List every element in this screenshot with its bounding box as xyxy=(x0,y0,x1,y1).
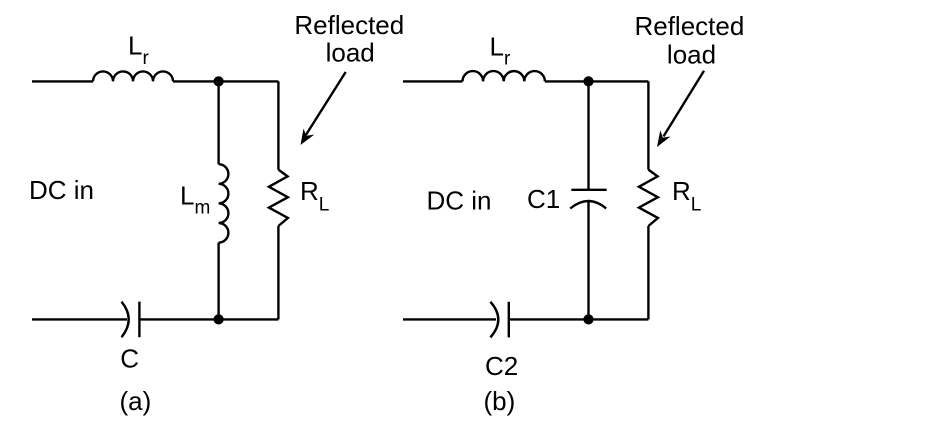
svg-text:RL: RL xyxy=(672,176,701,216)
svg-text:Lr: Lr xyxy=(490,32,511,70)
svg-text:C: C xyxy=(120,344,139,374)
capacitor C (a) curved plate xyxy=(122,302,129,338)
svg-text:load: load xyxy=(326,37,375,67)
svg-text:Lm: Lm xyxy=(180,181,210,219)
node junction dot (a) bottom xyxy=(214,314,224,324)
resistor RL (a) xyxy=(269,170,288,226)
annotation arrow (b) xyxy=(664,71,705,137)
wire (b) middle branch upper to C1 xyxy=(587,81,589,189)
node junction dot (a) top xyxy=(214,76,224,86)
arrowhead (a) xyxy=(301,129,315,145)
capacitor C2 (b) curved plate xyxy=(490,302,498,338)
capacitor C1 (b) curved plate xyxy=(570,201,606,209)
wire (b) top from Lr to corner xyxy=(545,80,649,82)
node junction dot (b) top xyxy=(583,76,593,86)
annotation arrow (a) xyxy=(306,72,346,135)
capacitor C (a) straight plate xyxy=(138,302,140,338)
wire (a) top-left horizontal xyxy=(32,80,93,82)
wire (a) top from Lr to corner xyxy=(173,80,278,82)
wire (a) right branch upper xyxy=(277,81,279,169)
svg-text:load: load xyxy=(667,40,716,70)
inductor Lr (a) xyxy=(93,71,173,81)
capacitor C2 (b) straight plate xyxy=(508,302,510,338)
svg-text:DC in: DC in xyxy=(29,175,94,205)
wire (a) bottom-left horizontal xyxy=(32,318,127,320)
svg-text:C1: C1 xyxy=(527,184,560,214)
wire (b) bottom-left horizontal xyxy=(403,318,496,320)
wire (a) middle branch lower xyxy=(217,243,219,320)
wire (a) bottom from C to corner xyxy=(139,318,278,320)
svg-text:Reflected: Reflected xyxy=(294,10,404,40)
inductor Lr (b) xyxy=(463,71,545,81)
node junction dot (b) bottom xyxy=(583,314,593,324)
capacitor C1 (b) straight plate xyxy=(571,189,606,191)
wire (b) right branch upper xyxy=(647,81,649,169)
inductor Lm (a) xyxy=(219,164,229,242)
svg-text:(b): (b) xyxy=(484,386,516,416)
wire (b) top-left horizontal xyxy=(403,80,463,82)
svg-text:Reflected: Reflected xyxy=(634,11,744,41)
svg-text:C2: C2 xyxy=(485,351,518,381)
svg-text:(a): (a) xyxy=(120,386,152,416)
wire (b) middle branch lower from C1 xyxy=(587,201,589,319)
svg-text:DC in: DC in xyxy=(427,185,492,215)
wire (a) middle branch upper xyxy=(217,81,219,164)
wire (a) right branch lower xyxy=(277,226,279,319)
arrowhead (b) xyxy=(657,130,671,147)
resistor RL (b) xyxy=(639,170,658,226)
wire (b) right branch lower xyxy=(647,226,649,319)
svg-text:RL: RL xyxy=(300,176,329,216)
svg-text:Lr: Lr xyxy=(128,31,149,69)
wire (b) bottom from C2 to corner xyxy=(509,318,649,320)
